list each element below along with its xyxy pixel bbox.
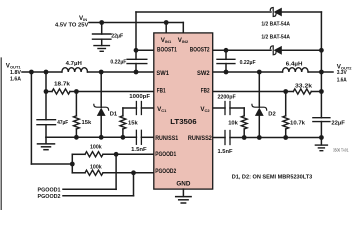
svg-text:1000pF: 1000pF: [129, 94, 150, 100]
ground left rail: [46, 136, 136, 138]
svg-text:15k: 15k: [82, 120, 92, 126]
svg-text:PGOOD1: PGOOD1: [155, 151, 176, 158]
resistor R 100k (pgood1): [72, 153, 85, 155]
svg-text:1/2 BAT-54A: 1/2 BAT-54A: [261, 22, 290, 28]
wire VIN1 stub: [165, 23, 167, 34]
diode D1 MBR5230LT3: [100, 72, 102, 107]
capacitor C-BOOST2 0.22uF: [225, 50, 227, 59]
node FB1 divider top: [44, 89, 49, 94]
wire VIN rail: [89, 22, 183, 24]
ground symbol left: [45, 137, 47, 143]
wire PGOOD1 label run: [115, 154, 117, 189]
svg-text:47µF: 47µF: [57, 120, 68, 126]
svg-text:22µF: 22µF: [111, 33, 123, 39]
wire BOOST2 stub/run: [213, 49, 271, 51]
wire BOOST1 riser: [135, 12, 137, 50]
wire VOUT2 stub: [321, 71, 333, 73]
ground symbol right: [320, 138, 322, 145]
node 15k bottom: [74, 135, 79, 140]
ground right rail: [230, 137, 321, 139]
svg-text:PGOOD2: PGOOD2: [155, 168, 176, 175]
svg-text:15k: 15k: [128, 120, 138, 126]
svg-text:10k: 10k: [228, 120, 238, 126]
wire PGOOD pullup riser: [30, 72, 32, 164]
wire BOOST1 stub: [136, 49, 154, 51]
svg-text:SW1: SW1: [156, 70, 169, 77]
svg-text:D2: D2: [268, 112, 275, 118]
svg-text:4.5V TO 25V: 4.5V TO 25V: [55, 23, 88, 29]
svg-text:100k: 100k: [90, 144, 102, 150]
svg-text:1.8V: 1.8V: [10, 70, 21, 76]
svg-text:BOOST2: BOOST2: [190, 47, 210, 54]
resistor R 10.7k: [285, 92, 287, 116]
svg-text:18.7k: 18.7k: [54, 81, 71, 87]
node C-BOOST1/SW1: [134, 70, 139, 75]
svg-text:1.6A: 1.6A: [337, 78, 348, 84]
resistor R 15k (fb1 low): [75, 92, 77, 116]
capacitor CIN 22uF: [101, 23, 103, 35]
node 15k vc1 bottom: [121, 135, 126, 140]
svg-text:PGOOD1: PGOOD1: [38, 187, 62, 193]
wire PGOOD2 label run: [133, 173, 135, 196]
svg-text:3506 TA01: 3506 TA01: [333, 147, 349, 152]
svg-text:6.4µH: 6.4µH: [286, 62, 303, 68]
svg-text:PGOOD2: PGOOD2: [38, 194, 61, 200]
svg-text:VIN: VIN: [79, 15, 87, 22]
node C-BOOST2/SW2: [224, 70, 229, 75]
svg-text:LT3506: LT3506: [170, 119, 196, 126]
svg-text:100k: 100k: [90, 164, 102, 170]
node boost rail join: [319, 48, 324, 53]
resistor R 100k (pgood2): [72, 172, 85, 174]
capacitor 1000pF: [140, 102, 142, 115]
wire BOOST1 top run: [136, 11, 271, 13]
node 10.7k bottom: [283, 135, 288, 140]
wire VOUT1 run: [22, 71, 62, 73]
capacitor 1.5nF (ss2): [224, 131, 226, 145]
capacitor COUT2 22uF: [313, 117, 330, 119]
svg-text:SW2: SW2: [197, 70, 210, 77]
svg-text:VOUT1: VOUT1: [6, 63, 22, 70]
diode D2 MBR5230LT3: [258, 72, 260, 107]
svg-text:10.7k: 10.7k: [290, 120, 306, 126]
svg-text:2200pF: 2200pF: [218, 95, 237, 101]
svg-text:BOOST1: BOOST1: [157, 47, 177, 54]
resistor R 33.2k: [293, 89, 311, 94]
svg-text:22µF: 22µF: [331, 120, 345, 126]
inductor L2 6.4uH: [283, 68, 309, 72]
svg-text:1/2 BAT-54A: 1/2 BAT-54A: [261, 35, 290, 41]
node PGOOD pullup tap: [29, 70, 34, 75]
wire D3a anode to vout2 riser: [282, 11, 322, 13]
node BOOST2 cap tap: [224, 48, 229, 53]
wire SW2 run: [213, 71, 283, 73]
diode D3a 1/2 BAT-54A (boost1): [270, 8, 282, 17]
node COUT1: [44, 70, 49, 75]
resistor R 15k (vc1): [122, 108, 124, 116]
node FB2 divider: [283, 89, 288, 94]
IC LT3506 body: [154, 33, 213, 189]
capacitor C-BOOST1 0.22uF: [135, 50, 137, 59]
wire pullup vertical join: [71, 154, 73, 173]
svg-text:1.5nF: 1.5nF: [131, 147, 147, 153]
wire RUN/SS2: [213, 137, 225, 139]
resistor R 18.7k: [46, 91, 52, 93]
capacitor 1.5nF (ss1): [135, 130, 137, 144]
node BOOST1: [134, 48, 139, 53]
wire VOUT2 riser: [320, 12, 322, 118]
node VIN-C tap: [99, 20, 104, 25]
capacitor COUT1 47uF: [45, 72, 47, 120]
wire FB2 run: [213, 91, 294, 93]
wire VC2: [213, 107, 225, 109]
wire pullup horizontal: [31, 163, 72, 165]
svg-text:D1: D1: [110, 112, 118, 118]
inductor L1 4.7uH: [62, 68, 88, 72]
svg-text:GND: GND: [176, 181, 191, 188]
svg-text:1.5nF: 1.5nF: [218, 149, 233, 155]
wire FB1 run: [76, 91, 153, 93]
node FB2 top: [319, 89, 324, 94]
svg-text:33.2k: 33.2k: [295, 84, 313, 90]
wire VC1: [141, 107, 153, 109]
node L2 out: [319, 70, 324, 75]
capacitor 2200pF: [224, 102, 226, 115]
wire SW1 run: [88, 71, 154, 73]
wire VIN2 stub: [182, 23, 184, 34]
svg-text:0.22µF: 0.22µF: [240, 60, 256, 66]
node D1 anode: [99, 135, 104, 140]
diode D3b 1/2 BAT-54A (boost2): [270, 46, 282, 55]
wire D3b anode run: [282, 49, 322, 51]
svg-text:4.7µH: 4.7µH: [66, 61, 82, 67]
node VIN1 tap: [164, 20, 169, 25]
node D2 anode: [257, 135, 262, 140]
svg-text:D1, D2: ON SEMI MBR5230LT3: D1, D2: ON SEMI MBR5230LT3: [232, 175, 313, 181]
svg-text:1.6A: 1.6A: [10, 76, 22, 82]
node pullup T: [70, 162, 75, 167]
svg-text:RUN/SS2: RUN/SS2: [188, 135, 212, 142]
node D2 top: [257, 70, 262, 75]
node FB1: [74, 89, 79, 94]
node 10k bottom: [242, 135, 247, 140]
node pgood1 ext: [114, 152, 119, 157]
svg-text:FB2: FB2: [201, 88, 210, 95]
node D1 top: [99, 70, 104, 75]
resistor R 10k (vc2): [243, 108, 245, 116]
svg-text:3.3V: 3.3V: [337, 70, 347, 76]
wire RUN/SS1: [141, 136, 153, 138]
ground symbol IC GND: [182, 189, 184, 196]
left page border: [0, 58, 2, 210]
svg-text:FB1: FB1: [157, 88, 166, 95]
node 22uF bottom: [319, 135, 324, 140]
svg-text:RUN/SS1: RUN/SS1: [155, 135, 178, 142]
node pgood2 ext: [131, 170, 136, 175]
wire PGOOD1 label horizontal: [63, 188, 116, 190]
wire PGOOD2 label horizontal: [63, 195, 134, 197]
svg-text:0.22µF: 0.22µF: [110, 59, 126, 65]
ground CIN: [94, 45, 109, 47]
